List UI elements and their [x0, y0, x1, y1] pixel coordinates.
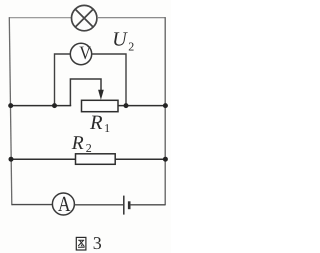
svg-text:V: V: [79, 43, 91, 64]
wire voltmeter left lead: [55, 54, 71, 106]
svg-text:R2: R2: [71, 133, 92, 155]
wire right border: [164, 17, 166, 205]
node dot voltmeter left drop: [52, 103, 57, 108]
caption glyph 图: [76, 237, 86, 250]
wire bus right: [118, 105, 166, 107]
wiper arrow head: [98, 90, 104, 100]
lamp L1: [72, 5, 97, 30]
wire battery to right border: [130, 204, 165, 206]
wire R2 row left: [11, 158, 76, 160]
svg-text:A: A: [58, 192, 71, 216]
ammeter A: [52, 192, 74, 216]
wire top-right segment: [97, 17, 165, 19]
wire bus left: [11, 105, 72, 107]
node dot R2 right: [163, 157, 168, 162]
svg-text:U2: U2: [112, 28, 134, 53]
battery cell: [124, 196, 129, 215]
wire left border: [9, 17, 12, 205]
node dot left bus: [8, 103, 13, 108]
node dot R2 left: [9, 157, 14, 162]
wire R2 row right: [115, 158, 166, 160]
voltmeter V: [70, 43, 91, 65]
wire voltmeter right lead: [92, 54, 126, 106]
node dot right bus: [163, 103, 168, 108]
wire wiper link: [70, 79, 101, 106]
wire top-left segment: [9, 17, 71, 19]
svg-text:R1: R1: [89, 112, 110, 135]
wire ammeter to battery: [74, 204, 123, 206]
node dot voltmeter right drop: [124, 103, 129, 108]
svg-text:3: 3: [93, 233, 102, 253]
wire bottom-left segment: [12, 204, 53, 206]
resistor R2: [76, 154, 116, 165]
potentiometer R1: [82, 100, 119, 111]
